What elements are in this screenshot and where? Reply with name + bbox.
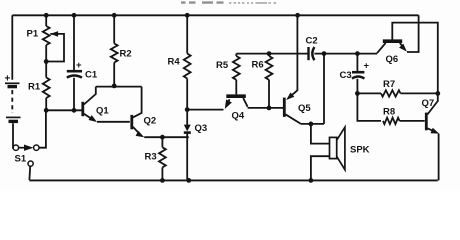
svg-text:S1: S1 [15, 154, 27, 165]
potentiometer P1 [43, 26, 50, 45]
svg-text:Q4: Q4 [232, 111, 245, 122]
label Q5 [298, 103, 311, 114]
label R3 [145, 152, 157, 163]
wire Q5 collector to speaker [311, 124, 330, 144]
wire R1 to base node [45, 98, 47, 110]
svg-text:Q2: Q2 [144, 116, 157, 127]
label R8 [383, 107, 395, 118]
label C1 [85, 70, 98, 81]
wire Q6 base bracket [392, 23, 438, 94]
capacitor C2 [309, 47, 315, 60]
wire collector net to Q2 [133, 87, 142, 118]
label Q4 [232, 111, 245, 122]
capacitor C3 [352, 72, 364, 78]
transistor Q7 emitter [427, 128, 439, 134]
transistor Q7 base bar [425, 113, 428, 131]
svg-text:+: + [364, 61, 370, 72]
label Q7 [422, 98, 435, 109]
wire rail end to Q6 emitter [407, 15, 419, 52]
wire node A to Q4 emitter [187, 109, 223, 111]
switch S1 throw contact [34, 145, 39, 150]
wire R5 top corner [235, 54, 237, 56]
wire C1 to base node [73, 78, 75, 111]
wire net to R6 [268, 54, 270, 56]
wire C2 to Q6 collector [314, 53, 377, 55]
wire S1 to R1 column [39, 112, 46, 148]
transistor Q4 emitter [225, 99, 232, 109]
svg-text:R1: R1 [28, 82, 41, 93]
svg-text:Q1: Q1 [96, 106, 109, 117]
svg-text:Q6: Q6 [386, 54, 399, 65]
svg-text:C3: C3 [340, 70, 352, 81]
resistor R1 [43, 78, 50, 99]
node speaker tap junction [309, 122, 314, 127]
node P1 wiper junction [44, 59, 49, 64]
wire net to C3 [356, 54, 358, 71]
node R1 base junction [44, 108, 49, 113]
wire rail to R4 [186, 15, 188, 53]
node A junction [185, 107, 190, 112]
diode Q3 [184, 125, 191, 133]
transistor Q4 collector [243, 98, 247, 107]
svg-text:R8: R8 [383, 107, 395, 118]
wire R2 to collector net [113, 63, 115, 87]
wire R3 to ground [161, 167, 163, 180]
svg-text:SPK: SPK [350, 145, 370, 156]
svg-text:+: + [76, 60, 82, 71]
wire Q2 emitter to R3 [161, 137, 163, 147]
node C1 base junction [72, 108, 77, 113]
svg-text:Q3: Q3 [195, 123, 208, 134]
node top rail junction dots [44, 13, 300, 18]
wire Q5 collector net [301, 123, 324, 125]
node R2 bottom junction [112, 84, 117, 89]
label Q3 [195, 123, 208, 134]
title text (cut off) [181, 1, 276, 4]
wire speaker to ground [311, 156, 330, 180]
label R4 [168, 57, 181, 68]
wire Q1 emitter to Q2 base [97, 121, 130, 123]
label R6 [252, 60, 264, 71]
wire battery top lead [11, 15, 13, 79]
transistor Q5 collector [285, 114, 301, 124]
transistor Q4 base bar [226, 94, 246, 98]
transistor Q2 base bar [130, 115, 133, 129]
node C2 output junction [322, 51, 327, 56]
transistor Q5 emitter [286, 15, 297, 100]
node Q2 emitter junction [160, 135, 165, 140]
battery B1 plus sign [5, 74, 11, 85]
transistor Q6 base bar [383, 39, 402, 43]
resistor R2 [111, 44, 118, 63]
capacitor C1 plus sign [76, 60, 82, 71]
label R7 [383, 79, 395, 90]
speaker SPK [330, 127, 345, 170]
potentiometer P1 wiper [46, 31, 64, 61]
node R6 top junction [267, 51, 272, 56]
node R7 collector junction [435, 91, 440, 96]
label SPK [350, 145, 370, 156]
label Q2 [144, 116, 157, 127]
label R1 [28, 82, 41, 93]
svg-text:C2: C2 [306, 36, 318, 47]
wire S1 lower contact to ground rail [28, 166, 31, 180]
transistor Q2 emitter [133, 127, 144, 137]
svg-text:R7: R7 [383, 79, 395, 90]
wire rail to C1 [73, 15, 75, 70]
battery B1 [5, 83, 21, 121]
label C3 [340, 70, 352, 81]
svg-text:R2: R2 [120, 49, 132, 60]
svg-text:R4: R4 [168, 57, 181, 68]
label C2 [306, 36, 318, 47]
wire node A to Q3 [186, 110, 188, 125]
resistor R3 [159, 147, 166, 167]
transistor Q6 emitter [399, 43, 407, 52]
wire Q7 emitter to ground [438, 134, 440, 181]
wire R4 to node A [186, 79, 188, 110]
wire P1 to R1 [45, 45, 47, 78]
label R5 [216, 60, 229, 71]
wire Q4 collector to Q5 base [248, 107, 283, 109]
switch S1 blade arrow [19, 145, 34, 151]
wire timing net [236, 53, 307, 55]
resistor R7 [381, 90, 401, 96]
node C3 top junction [355, 51, 360, 56]
wire rail to P1 [45, 15, 47, 26]
wire C2 junction to Q5 collector [323, 54, 325, 124]
label S1 [15, 154, 27, 165]
switch S1 lower contact [28, 161, 33, 166]
resistor R8 [383, 118, 400, 124]
node R7 bus junction [355, 91, 360, 96]
wire Q1 Q2 collector net [96, 86, 142, 88]
wire R5 to Q4 base [235, 80, 237, 95]
transistor Q1 base bar [81, 102, 84, 116]
transistor Q1 collector [84, 87, 96, 105]
wire battery negative lead [12, 123, 14, 148]
svg-text:R3: R3 [145, 152, 157, 163]
svg-text:C1: C1 [85, 70, 98, 81]
capacitor C3 plus sign [364, 61, 370, 72]
wire Q1 base [46, 109, 82, 111]
wire rail to R2 [113, 15, 115, 43]
node bottom rail junction dots [160, 178, 313, 183]
label Q1 [96, 106, 109, 117]
resistor R5 [233, 56, 240, 80]
transistor Q6 collector [377, 43, 386, 53]
label P1 [27, 29, 39, 40]
transistor Q1 emitter [84, 114, 97, 122]
wire R8 to Q7 base [400, 120, 425, 122]
resistor R4 [184, 54, 191, 79]
svg-text:P1: P1 [27, 29, 39, 40]
svg-text:R5: R5 [216, 60, 229, 71]
label Q6 [386, 54, 399, 65]
svg-text:Q5: Q5 [298, 103, 311, 114]
wire R6 to Q5 base [268, 80, 270, 108]
transistor Q5 base bar [283, 98, 286, 117]
transistor Q7 collector [427, 93, 437, 114]
resistor R6 [266, 56, 273, 80]
wire top supply rail [12, 14, 418, 16]
capacitor C1 [67, 71, 82, 77]
switch S1 pole contact [13, 145, 18, 150]
wire bus to R7 [357, 92, 381, 94]
svg-text:R6: R6 [252, 60, 264, 71]
wire Q2 emitter net [144, 136, 189, 138]
wire R7 to Q7 collector [401, 92, 438, 94]
wire C3 to R7 R8 bus [357, 79, 381, 121]
label R2 [120, 49, 132, 60]
wire Q3 cathode to ground [186, 133, 188, 181]
wire bottom ground rail [29, 179, 438, 181]
node R6 bottom junction [267, 106, 272, 111]
